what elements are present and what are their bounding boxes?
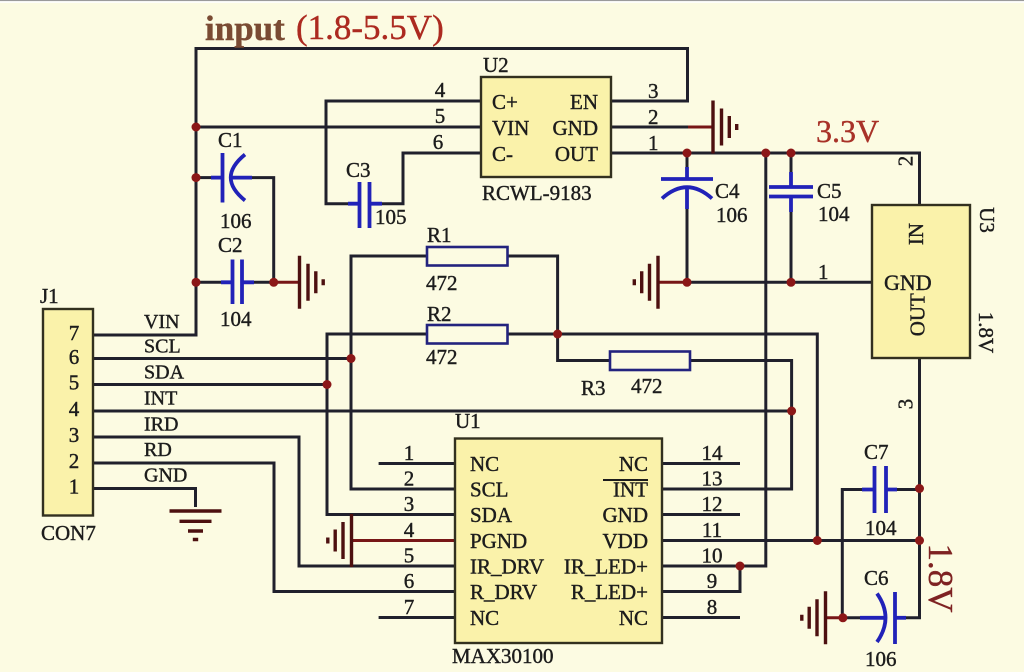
svg-text:OUT: OUT [555,142,598,166]
svg-text:IR_DRV: IR_DRV [470,555,544,579]
svg-text:INT: INT [613,478,648,502]
svg-text:472: 472 [426,271,458,295]
wire RD from J1 pin 2 to U1 pin 6 R_DRV [93,463,455,592]
svg-text:(1.8-5.5V): (1.8-5.5V) [296,8,444,47]
resistor R3 [610,352,690,371]
svg-text:2: 2 [404,467,415,491]
capacitor C4 [661,167,713,209]
connector J1 CON7 box [43,309,93,516]
wire IRD from J1 pin 3 to U1 pin 5 IR_DRV [93,437,455,566]
svg-text:5: 5 [404,544,415,568]
wire SDA from J1 pin 5 [93,383,327,386]
junction OUT / LED drop [761,149,770,158]
wire R2 right to VDD node [508,334,818,541]
wire 3.3V rail from U2 OUT to U3 pin 2 IN [611,153,920,205]
wire U1 pin 12 stub [661,513,740,516]
svg-text:104: 104 [220,307,252,331]
wire U1 pin 1 stub [379,462,455,465]
svg-text:INT: INT [144,388,177,410]
junction pin 10 / pin 9 jog [736,562,745,571]
svg-text:C7: C7 [864,440,889,464]
wire 3.3V drop to IR_LED+ pin 10 [661,153,766,566]
junction ground rail / C5 [787,278,796,287]
svg-text:4: 4 [69,397,80,421]
svg-text:4: 4 [404,518,415,542]
svg-text:2: 2 [648,105,659,129]
capacitor C3 [348,182,382,228]
wire C7 right to 1.8V vertical [896,488,920,491]
svg-text:IN: IN [904,223,928,245]
ground at C2 (right-pointing) [300,256,324,309]
wire R3 right down to INT node and U1 pin 13 [662,361,792,490]
capacitor C2 [221,260,254,305]
U1 INT overline [603,479,648,481]
wire C2 right branch [253,281,274,284]
svg-text:U1: U1 [455,409,481,433]
svg-text:OUT: OUT [905,293,929,336]
svg-text:GND: GND [884,270,932,295]
wire C4 bottom to ground rail [686,208,689,282]
wire SCL from J1 pin 6 [93,357,351,360]
svg-text:VIN: VIN [144,311,180,333]
svg-text:13: 13 [702,467,723,491]
svg-text:VIN: VIN [492,116,529,140]
svg-text:3: 3 [648,79,659,103]
wire U2 pin 2 GND stub [611,126,690,129]
resistor R2 [427,325,508,344]
svg-text:11: 11 [702,518,722,542]
svg-text:U3: U3 [975,207,999,233]
junction C7 right / 1.8V vertical [915,484,924,493]
wire C7 left down to C6 left node [842,490,865,618]
wire VIN to U2 pin 5 [196,126,481,129]
svg-text:3: 3 [894,399,918,410]
junction SDA / R2 [323,380,332,389]
junction C2 right / ground [269,278,278,287]
svg-text:NC: NC [470,606,499,630]
wire input rail: top rail from EN pin of U2 up and across to left vertical, down to J1 pin 7 (VIN) [93,49,688,336]
svg-text:R1: R1 [427,223,452,247]
svg-text:C4: C4 [715,179,740,203]
svg-text:PGND: PGND [470,529,527,553]
svg-text:GND: GND [603,503,649,527]
svg-text:input: input [205,9,285,48]
svg-text:C-: C- [492,142,513,166]
svg-text:R_LED+: R_LED+ [571,580,648,604]
svg-text:106: 106 [716,203,748,227]
junction C2 left [192,278,201,287]
svg-text:IRD: IRD [144,414,178,436]
svg-text:2: 2 [894,156,918,167]
wire C5 bottom lead [790,211,793,282]
wire U2 pin 4 C+ to C3 left [326,101,481,204]
svg-text:VDD: VDD [603,529,649,553]
svg-text:C2: C2 [218,233,243,257]
wire C6 left from ground node [843,616,860,619]
svg-text:SDA: SDA [144,362,185,384]
svg-text:106: 106 [865,647,897,671]
svg-text:C3: C3 [346,158,371,182]
svg-text:NC: NC [619,452,648,476]
junction R2 / VDD row [813,536,822,545]
svg-text:R2: R2 [427,302,452,326]
capacitor C6 [860,592,906,644]
wire jog pin 10 to R_LED+ pin 9 [661,566,740,592]
svg-text:105: 105 [375,205,407,229]
svg-text:9: 9 [707,569,718,593]
junction VIN/U2 pin5 [192,123,201,132]
svg-text:14: 14 [702,441,724,465]
svg-text:EN: EN [570,90,598,114]
svg-text:1: 1 [818,260,829,284]
svg-text:472: 472 [631,374,663,398]
wire C1 right branch down to C2 right node [250,178,274,283]
ground at C6 (left-pointing) [802,591,826,644]
svg-text:C5: C5 [817,179,842,203]
svg-text:3.3V: 3.3V [816,113,879,149]
svg-text:IR_LED+: IR_LED+ [564,555,648,579]
svg-text:472: 472 [426,345,458,369]
wire C5 top lead [790,153,793,172]
svg-text:6: 6 [69,345,80,369]
wire ground rail to U3 pin 1 GND [687,281,872,284]
wire GND from J1 pin 1 to ground [93,489,196,508]
svg-text:1: 1 [404,441,415,465]
svg-text:SDA: SDA [470,503,513,527]
op-amp U1 MAX30100 box [455,439,662,644]
svg-text:C+: C+ [492,90,518,114]
svg-text:RCWL-9183: RCWL-9183 [482,181,592,205]
junction VDD row / 1.8V vertical [915,536,924,545]
wire ground stem of ground rail [658,281,688,284]
svg-text:12: 12 [702,492,723,516]
svg-text:1.8V: 1.8V [974,312,998,353]
svg-text:8: 8 [707,595,718,619]
svg-text:SCL: SCL [144,336,181,358]
svg-text:SCL: SCL [470,478,509,502]
junction INT / R3 [787,407,796,416]
op-amp U2 RCWL-9183 box [481,77,611,177]
svg-text:106: 106 [220,209,252,233]
wire R1 right down to R2 right node and R3 left [508,256,611,361]
svg-text:4: 4 [435,78,446,102]
junction SCL / R1 [347,354,356,363]
wire U1 pin 14 stub [661,462,740,465]
svg-text:J1: J1 [40,284,59,308]
ground of ground rail (left-pointing) [634,256,658,309]
wire 1.8V from U3 pin 3 OUT down to C6 right [905,358,920,618]
svg-text:1: 1 [648,131,659,155]
wire R1 left vertical down to U1 pin 2 SCL [351,256,455,489]
op-amp U3 regulator box [872,205,970,358]
svg-text:7: 7 [404,595,415,619]
junction ground rail / C4 [683,278,692,287]
svg-text:NC: NC [470,452,499,476]
junction OUT / C4 [683,149,692,158]
wire U1 pin 8 stub [661,616,740,619]
svg-text:1: 1 [69,475,80,499]
svg-text:RD: RD [144,439,172,461]
capacitor C7 [862,466,897,513]
svg-text:NC: NC [619,606,648,630]
svg-text:CON7: CON7 [41,521,96,545]
junction R1 / R2 right [553,330,562,339]
svg-text:C6: C6 [864,566,889,590]
ground at J1 GND (down-pointing) [170,511,222,540]
svg-text:R_DRV: R_DRV [470,580,537,604]
svg-text:6: 6 [404,569,415,593]
ground at U2 pin 2 (right-pointing) [713,101,737,154]
svg-text:5: 5 [69,371,80,395]
wire C4 top lead [686,153,689,167]
capacitor C5 [769,172,813,212]
wire R2 left vertical down to U1 pin 3 SDA [327,334,455,515]
wire ground stem at C2 node [274,281,298,284]
svg-text:GND: GND [553,116,599,140]
svg-text:3: 3 [69,423,80,447]
wire ground stem at C6 node [825,616,843,619]
svg-text:7: 7 [69,321,80,345]
svg-text:2: 2 [69,449,80,473]
wire PGND from ground to U1 pin 4 [352,539,455,542]
svg-text:6: 6 [433,130,444,154]
ground at PGND (left-pointing) [328,514,352,567]
wire U1 pin 7 stub [379,616,455,619]
svg-text:104: 104 [865,516,897,540]
svg-text:GND: GND [144,465,187,487]
svg-text:104: 104 [818,202,850,226]
junction C6 left / C7 left / ground [838,613,847,622]
junction OUT / C5 [787,149,796,158]
wire ground stem at U2 pin 2 [688,126,712,129]
capacitor C1 [211,153,252,203]
svg-text:1.8V: 1.8V [921,543,960,612]
wire INT from J1 pin 4 [93,410,792,413]
wire C2 left branch [196,281,221,284]
svg-text:C1: C1 [218,128,243,152]
svg-text:5: 5 [435,104,446,128]
svg-text:MAX30100: MAX30100 [452,644,554,668]
svg-text:R3: R3 [581,376,606,400]
junction C1 left [192,173,201,182]
svg-text:3: 3 [404,492,415,516]
svg-text:10: 10 [702,544,723,568]
wire C3 right to U2 pin 6 C- [381,153,481,204]
wire C1 left branch [196,176,211,179]
svg-text:U2: U2 [483,53,509,77]
wire VDD row from U1 pin 11 to 1.8V vertical [661,539,920,542]
resistor R1 [427,247,508,266]
